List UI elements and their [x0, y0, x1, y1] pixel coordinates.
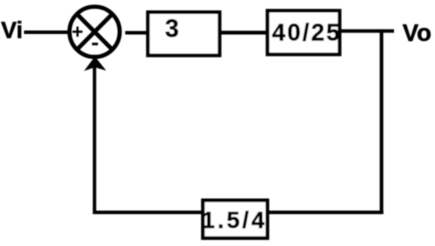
wire feedback left riser: [93, 66, 96, 214]
svg-text:40/25: 40/25: [272, 20, 342, 47]
wire block 3 to block 40/25: [221, 31, 268, 35]
wire feedback right vertical: [380, 31, 384, 214]
wire summing junction to block 3: [125, 31, 147, 35]
svg-text:1.5/4: 1.5/4: [202, 207, 267, 233]
wire block 40/25 to output node: [341, 29, 395, 33]
wire feedback bottom horizontal: [93, 211, 383, 215]
summing junction S1: [70, 7, 120, 57]
svg-text:Vi: Vi: [1, 17, 23, 43]
svg-text:Vo: Vo: [403, 20, 432, 47]
minus sign: [92, 43, 98, 46]
plus sign: [73, 27, 83, 37]
wire Vi to summing junction: [24, 30, 69, 34]
arrowhead into summing junction: [84, 57, 106, 72]
svg-text:3: 3: [165, 15, 179, 43]
block G2: [268, 11, 340, 55]
block H1: [203, 200, 268, 238]
block G1: [148, 12, 220, 55]
